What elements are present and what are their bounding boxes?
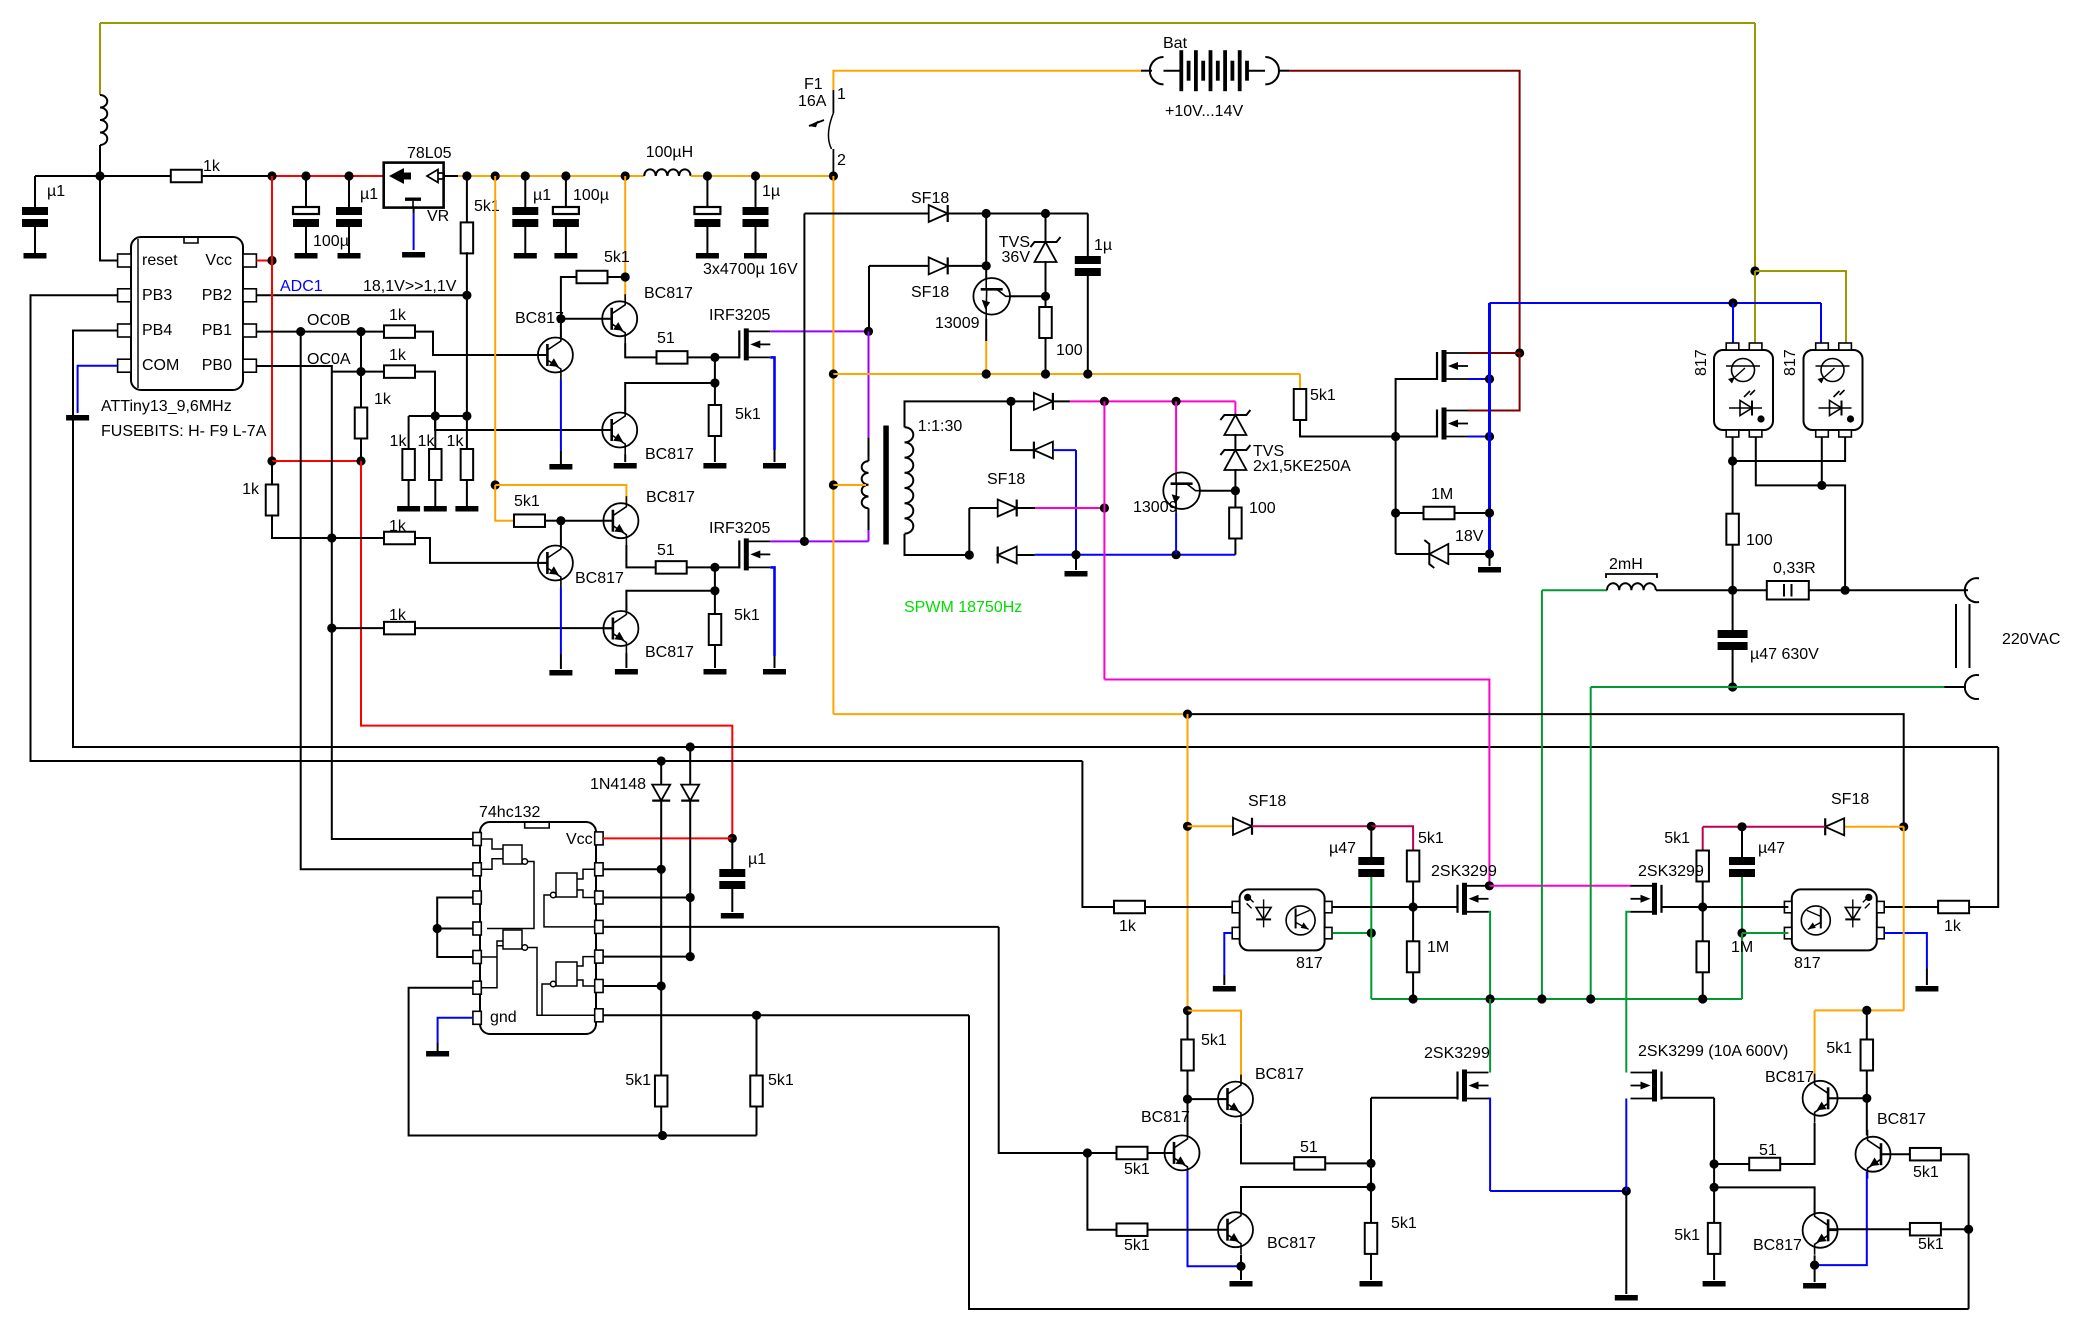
svg-text:Vcc: Vcc bbox=[205, 252, 232, 269]
res 5k1 gate feed bbox=[1294, 389, 1307, 420]
svg-text:COM: COM bbox=[142, 357, 179, 374]
wire VR gnd lead bbox=[413, 208, 415, 213]
svg-text:36V: 36V bbox=[1002, 249, 1031, 266]
wire Q19 emitter bbox=[1814, 1255, 1816, 1265]
svg-text:IRF3205: IRF3205 bbox=[709, 307, 770, 324]
diode D4 SF18 bbox=[1034, 393, 1053, 410]
svg-text:SF18: SF18 bbox=[911, 190, 949, 207]
svg-text:0,33R: 0,33R bbox=[1773, 560, 1816, 577]
wire orange to Q5a collector bbox=[495, 485, 626, 505]
gate G4 NAND bbox=[542, 957, 594, 1016]
svg-text:5k1: 5k1 bbox=[1391, 1215, 1417, 1232]
svg-text:BC817: BC817 bbox=[1255, 1066, 1304, 1083]
junction M2 source bbox=[1485, 432, 1494, 441]
tvs KE250A 2 bbox=[1220, 445, 1250, 470]
wire gate to 5k1 A2 bbox=[714, 357, 716, 383]
wire to 5k1 Q13 bbox=[1087, 1152, 1116, 1154]
resistor R 5k1 gate feed bbox=[1299, 374, 1301, 389]
svg-text:817: 817 bbox=[1296, 955, 1323, 972]
capacitor C10 µ47 bbox=[1370, 826, 1372, 857]
optocoupler U7 817 bbox=[1784, 889, 1884, 950]
svg-text:5k1: 5k1 bbox=[604, 249, 630, 266]
res 1M bbox=[1424, 507, 1455, 520]
junction gate bus R bbox=[1698, 902, 1707, 911]
junction gate bus L bbox=[1409, 902, 1418, 911]
wire D13 down bbox=[689, 801, 691, 957]
wire Q8 collector bbox=[1010, 295, 1046, 297]
ground C3 bbox=[338, 253, 361, 259]
tvs 36V bbox=[1031, 237, 1061, 262]
wire Q6 emitter bbox=[625, 653, 627, 668]
junction rail bbox=[521, 171, 530, 180]
wire divider top bbox=[409, 415, 467, 417]
transistor Q12 BC817 bbox=[1218, 1075, 1253, 1124]
junction emitters R bbox=[1810, 1261, 1819, 1270]
junction F1 out bbox=[829, 171, 838, 180]
svg-text:817: 817 bbox=[1693, 349, 1710, 376]
svg-text:18,1V>>1,1V: 18,1V>>1,1V bbox=[363, 278, 457, 295]
gate G3 NAND bbox=[544, 869, 594, 927]
wire Vcc 1k chain bbox=[271, 461, 273, 484]
wire Q19 collector link bbox=[1714, 1187, 1815, 1212]
junction bbox=[1041, 209, 1050, 218]
wire 1k pullup to red bbox=[360, 438, 362, 461]
wire reset to rail bbox=[100, 176, 118, 261]
ground Q6 bbox=[615, 669, 638, 675]
junction rail bbox=[95, 171, 104, 180]
wire base feed Q8 bbox=[985, 214, 987, 279]
junction bbox=[1100, 397, 1109, 406]
svg-text:817: 817 bbox=[1782, 349, 1799, 376]
capacitor C8 1µ bbox=[1087, 214, 1089, 257]
wire 5k1A to base node bbox=[561, 277, 577, 319]
svg-text:1M: 1M bbox=[1431, 486, 1453, 503]
ground divider 2 bbox=[424, 506, 447, 512]
svg-text:51: 51 bbox=[1759, 1142, 1777, 1159]
junction output hot bbox=[1841, 586, 1850, 595]
wire Q13 emitter blue bbox=[1188, 1170, 1242, 1266]
wire pin9 link bbox=[603, 868, 661, 870]
junction red bbox=[267, 456, 276, 465]
wire to Q13 collector bbox=[1187, 1099, 1189, 1135]
resistor R 51 B bbox=[656, 561, 687, 574]
wire gate lead B bbox=[715, 566, 739, 568]
svg-text:SF18: SF18 bbox=[911, 284, 949, 301]
wire 100 to orange bbox=[1045, 338, 1047, 374]
wire pin10 link bbox=[603, 897, 690, 899]
gate G2 NAND bbox=[481, 930, 589, 1015]
wire blue node vertical bbox=[1488, 303, 1491, 554]
junction bbox=[982, 261, 991, 270]
diode D12 1N4148 bbox=[652, 785, 670, 801]
wire 1k divider gnd lead 3 bbox=[466, 480, 468, 506]
junction green bus bbox=[1486, 994, 1495, 1003]
svg-text:100: 100 bbox=[1249, 500, 1276, 517]
wire lower rail black to right bbox=[1188, 714, 1904, 827]
ground C7 bbox=[744, 253, 767, 259]
junction Q2 base node bbox=[556, 314, 565, 323]
ground C5 bbox=[554, 253, 577, 259]
wire olive to opto U4 pin bbox=[1754, 271, 1756, 343]
wire magenta vertical bbox=[1103, 401, 1105, 679]
ground rectifier bbox=[1065, 571, 1088, 577]
capacitor C1 µ1 bbox=[34, 176, 36, 207]
transistor Q3 BC817 bbox=[538, 331, 573, 380]
svg-text:1:1:30: 1:1:30 bbox=[918, 418, 963, 435]
wire M upper L source green bbox=[1489, 912, 1491, 999]
svg-text:ATTiny13_9,6MHz: ATTiny13_9,6MHz bbox=[101, 398, 232, 415]
wire OC0B to 74hc pin2 bbox=[301, 332, 480, 870]
wire 1M right bbox=[1455, 512, 1490, 514]
svg-text:BC817: BC817 bbox=[646, 489, 695, 506]
junction gate pair bbox=[1391, 432, 1400, 441]
wire opto emitter bus bbox=[1732, 437, 1734, 461]
wire blue to optos bbox=[1490, 302, 1822, 304]
junction Q13 collector link bbox=[1366, 1182, 1375, 1191]
optocoupler U5 817 bbox=[1804, 343, 1863, 437]
svg-text:OC0B: OC0B bbox=[307, 312, 351, 329]
cap C11 plates bbox=[1729, 857, 1755, 877]
junction red 2 bbox=[356, 456, 365, 465]
wire primary bottom purple bbox=[868, 530, 870, 541]
wire pin8 long bbox=[603, 926, 999, 928]
wire to Q5 collector bbox=[560, 521, 562, 546]
junction Q5a base node bbox=[556, 516, 565, 525]
ground blue node bbox=[1478, 567, 1501, 573]
wire shunt left bbox=[1735, 589, 1767, 591]
svg-text:PB1: PB1 bbox=[202, 322, 232, 339]
junction bbox=[686, 893, 695, 902]
junction orange B bbox=[491, 480, 500, 489]
wire shunt right bbox=[1809, 589, 1845, 591]
cap C7 plates bbox=[743, 207, 769, 227]
wire opto R emitter green bbox=[1742, 932, 1788, 934]
junction orange R bbox=[1862, 1006, 1871, 1015]
wire to D4 bbox=[1011, 400, 1034, 402]
wire gate node down bbox=[1395, 437, 1397, 555]
junction orange L driver bbox=[1183, 1006, 1192, 1015]
svg-text:2SK3299: 2SK3299 bbox=[1431, 863, 1497, 880]
res 100 output bbox=[1726, 514, 1739, 545]
junction 1M right bbox=[1485, 508, 1494, 517]
junction 5k1 fb bbox=[752, 1011, 761, 1020]
svg-text:BC817: BC817 bbox=[1141, 1109, 1190, 1126]
res 5k1 fb1 bbox=[655, 1076, 668, 1107]
wire gnd pin blue bbox=[438, 1018, 473, 1043]
wire 5k1A2 gnd bbox=[714, 436, 716, 462]
wire 74hc pin3-4-5 tie bbox=[437, 898, 473, 958]
secondary coil bbox=[905, 427, 914, 533]
svg-text:1k: 1k bbox=[418, 433, 436, 450]
svg-text:SF18: SF18 bbox=[1248, 793, 1286, 810]
junction Q6 collector bbox=[710, 586, 719, 595]
junction rail bbox=[621, 171, 630, 180]
svg-text:µ47: µ47 bbox=[1758, 840, 1785, 857]
junction blue source bbox=[1622, 1186, 1631, 1195]
svg-text:51: 51 bbox=[1300, 1139, 1318, 1156]
wire R2 to divider bbox=[466, 252, 468, 416]
svg-text:5k1: 5k1 bbox=[1664, 830, 1690, 847]
junction bbox=[982, 369, 991, 378]
cap C12 plates bbox=[719, 869, 745, 889]
ground VR bbox=[402, 252, 425, 258]
wire input L to Q14 bbox=[1087, 1153, 1116, 1230]
wire dark red to M2 drain bbox=[1468, 353, 1520, 411]
wire Vcc red bbox=[256, 260, 272, 262]
wire 5k1 to gates bbox=[1300, 420, 1396, 437]
wire blue bus gnd bbox=[1625, 1191, 1627, 1294]
res 1k OC0B bbox=[384, 325, 415, 338]
wire M2 source blue bbox=[1468, 436, 1490, 438]
svg-text:13009: 13009 bbox=[935, 315, 980, 332]
junction bbox=[657, 981, 666, 990]
junction right orange bbox=[1899, 822, 1908, 831]
wire 5k1B2 gnd bbox=[714, 645, 716, 668]
resistor R 5k1 Q19 base bbox=[1910, 1223, 1941, 1236]
resistor R 51 L bbox=[1294, 1157, 1325, 1170]
wire blue gnd lead bbox=[1489, 554, 1491, 566]
resistor R 5k1 A2 bbox=[709, 405, 722, 436]
wire 5k1 to input R bbox=[1941, 1153, 1969, 1155]
capacitor C4 µ1 bbox=[524, 176, 526, 207]
svg-text:+10V...14V: +10V...14V bbox=[1165, 103, 1243, 120]
wire green neutral drop bbox=[1590, 687, 1592, 999]
svg-text:Vcc: Vcc bbox=[566, 831, 593, 848]
cap C9 plates bbox=[1718, 630, 1748, 650]
junction pins tie bbox=[433, 924, 442, 933]
wire orange center tap bbox=[833, 484, 861, 486]
wire 5k1A right bbox=[608, 276, 626, 278]
svg-text:1k: 1k bbox=[1119, 918, 1137, 935]
svg-text:5k1: 5k1 bbox=[625, 1072, 651, 1089]
wire crimson R bbox=[1703, 826, 1826, 828]
wire Q6a emitter bbox=[624, 455, 626, 463]
wire gate node L vertical bbox=[1370, 1098, 1372, 1223]
svg-text:5k1: 5k1 bbox=[1674, 1227, 1700, 1244]
wire green bridge mid to 2mH bbox=[1542, 589, 1607, 591]
wire PB4 bus1 bbox=[73, 331, 1998, 748]
mosfet 2SK3299 upper L bbox=[1458, 883, 1489, 915]
capacitor C11 µ47 bbox=[1741, 827, 1743, 857]
svg-text:5k1: 5k1 bbox=[1913, 1164, 1939, 1181]
svg-text:µ1: µ1 bbox=[748, 851, 766, 868]
svg-text:BC817: BC817 bbox=[1765, 1069, 1814, 1086]
wire TVS link bbox=[1234, 434, 1236, 449]
svg-text:5k1: 5k1 bbox=[1310, 387, 1336, 404]
wire 51 to gate bbox=[688, 356, 715, 358]
transistor Q6a BC817 bbox=[602, 406, 637, 455]
wire blue opto U5 bbox=[1820, 303, 1822, 343]
resistor R 100 clamp bbox=[1045, 296, 1047, 307]
wire pin4 link bbox=[437, 928, 473, 930]
wire green neutral right bbox=[1733, 686, 1945, 688]
wire SF18 L feed bbox=[1188, 825, 1234, 827]
junction D clamp bbox=[800, 537, 809, 546]
resistor R 5k1 Q14 base bbox=[1117, 1223, 1148, 1236]
svg-text:74hc132: 74hc132 bbox=[479, 804, 540, 821]
wire D1 cathode row bbox=[948, 213, 1088, 215]
wire to Q14 base bbox=[1148, 1229, 1228, 1231]
wire D4 out bbox=[1053, 400, 1070, 402]
wire orange R horizontal bbox=[1815, 1009, 1904, 1011]
svg-text:220VAC: 220VAC bbox=[2002, 631, 2060, 648]
wire input L from 74hc bbox=[999, 927, 1088, 1153]
wire dark red to M1 drain bbox=[1468, 352, 1520, 354]
svg-text:1k: 1k bbox=[389, 347, 407, 364]
wire orange clamp rail bbox=[833, 373, 1300, 375]
wire L1 to rail bbox=[99, 145, 101, 176]
wire 1k divider lead 3 bbox=[466, 416, 468, 449]
resistor R 1k divider 2 bbox=[429, 449, 442, 480]
transistor Q13 BC817 bbox=[1165, 1128, 1200, 1177]
cap C8 plates bbox=[1075, 256, 1101, 276]
wire gate lead A bbox=[715, 356, 739, 358]
wire 100 to output bbox=[1732, 544, 1734, 590]
wire to output terminal bbox=[1845, 589, 1966, 591]
transformer T1 primary bbox=[868, 438, 870, 462]
ground opto R bbox=[1915, 986, 1938, 992]
junction magenta drain bbox=[1485, 881, 1494, 890]
resistor body R1 bbox=[171, 170, 202, 183]
wire D5 row bbox=[1011, 401, 1034, 450]
wire blue rectifier bus bbox=[1035, 554, 1236, 556]
junction secondary bottom bbox=[965, 550, 974, 559]
wire orange R driver bbox=[1903, 827, 1905, 1011]
svg-text:100µ: 100µ bbox=[313, 233, 349, 250]
svg-text:5k1: 5k1 bbox=[1124, 1237, 1150, 1254]
wire 78L05 output bbox=[444, 175, 458, 177]
svg-text:OC0A: OC0A bbox=[307, 351, 351, 368]
ground pd L bbox=[1360, 1281, 1383, 1287]
wire 100B to blue bbox=[1234, 539, 1236, 555]
resistor R 1k divider 3 bbox=[461, 449, 474, 480]
resistor R 0,33R shunt bbox=[1767, 581, 1809, 600]
svg-text:100: 100 bbox=[1056, 342, 1083, 359]
junction bbox=[1172, 397, 1181, 406]
wire Q2 emitter to 51 bbox=[625, 343, 656, 357]
transistor Q14 BC817 bbox=[1218, 1205, 1253, 1254]
wire green drop R bbox=[1741, 933, 1743, 999]
capacitor C5 100µ bbox=[565, 176, 567, 207]
svg-text:SPWM 18750Hz: SPWM 18750Hz bbox=[904, 599, 1022, 616]
junction M1 source bbox=[1485, 374, 1494, 383]
resistor R 1k to Q6 base bbox=[384, 622, 415, 635]
diode D11 SF18 bbox=[1825, 818, 1844, 835]
cap C10 plates bbox=[1358, 857, 1384, 877]
diode D5 SF18 bbox=[1034, 442, 1053, 459]
junction rail bbox=[703, 171, 712, 180]
resistor R 1M bbox=[1396, 512, 1424, 514]
svg-text:PB2: PB2 bbox=[202, 287, 232, 304]
wire orange trunk bbox=[832, 176, 834, 714]
junction 74hc Vcc bbox=[728, 834, 737, 843]
wire 5k1 to Q17 base bbox=[1866, 1070, 1868, 1098]
ground Q6a bbox=[614, 463, 637, 469]
wire to 5k1 B2 bbox=[714, 591, 716, 615]
diode D1 SF18 bbox=[929, 205, 948, 222]
junction bbox=[657, 865, 666, 874]
wire emitters gnd L bbox=[1240, 1266, 1242, 1280]
junction Q19 collector link bbox=[1710, 1183, 1719, 1192]
wire Q17 base lead bbox=[1828, 1097, 1867, 1099]
wire battery left lead bbox=[1141, 70, 1152, 72]
svg-text:2x1,5KE250A: 2x1,5KE250A bbox=[1253, 458, 1351, 475]
junction opto collectors bbox=[1817, 481, 1826, 490]
transistor Q8 13009 bbox=[973, 278, 1016, 319]
wire to 5k1 A2 bbox=[714, 383, 716, 407]
wire to Q13 base bbox=[1148, 1152, 1175, 1154]
wire M1 source blue bbox=[1468, 378, 1490, 380]
diode D10 SF18 bbox=[1233, 818, 1252, 835]
wire green neutral bbox=[1591, 686, 1733, 688]
wire green bus bbox=[1371, 998, 1742, 1000]
wire 1k divider lead 1 bbox=[408, 416, 410, 449]
transistor Q5a BC817 bbox=[603, 496, 638, 545]
junction rail bbox=[344, 171, 353, 180]
wire to Q6a collector bbox=[625, 383, 715, 413]
wire IRF3205 B drain purple bbox=[770, 540, 868, 542]
wire olive to opto U5 pin bbox=[1755, 271, 1846, 343]
wire M lower R source blue bbox=[1625, 1099, 1627, 1192]
wire olive drop to inductor L1 bbox=[99, 23, 101, 95]
junction purple primary top bbox=[864, 327, 873, 336]
res 1k B2 bbox=[384, 532, 415, 545]
transistor Q19 BC817 bbox=[1803, 1206, 1838, 1255]
diode D6 SF18 bbox=[998, 500, 1017, 517]
wire pd R gnd bbox=[1713, 1254, 1715, 1280]
wire Vcc pin red bbox=[603, 837, 732, 839]
gate G1 NAND bbox=[481, 839, 534, 929]
wire 51L to gate node bbox=[1325, 1162, 1371, 1164]
resistor R 51 A bbox=[657, 351, 688, 364]
wire C8 bottom bbox=[1087, 276, 1089, 374]
junction rail bbox=[751, 171, 760, 180]
wire to output terminal 2 bbox=[1944, 686, 1966, 688]
svg-text:100µH: 100µH bbox=[646, 144, 693, 161]
TVS D3 36V bbox=[1045, 214, 1047, 242]
zener 18V bbox=[1424, 540, 1448, 568]
svg-text:µ47: µ47 bbox=[1329, 840, 1356, 857]
wire 13009 B base bbox=[1175, 401, 1177, 472]
cap C6 plates bbox=[694, 207, 720, 227]
junction OC0A tap2 bbox=[327, 624, 336, 633]
wire D2 anode drop bbox=[868, 266, 870, 332]
ground C4 bbox=[514, 253, 537, 259]
wire D5 blue bbox=[1053, 449, 1076, 451]
wire clamp D2 row bbox=[869, 265, 929, 267]
wire input R vertical bbox=[1968, 1154, 1970, 1309]
resistor R2 5k1 bbox=[466, 176, 468, 224]
svg-text:5k1: 5k1 bbox=[1826, 1040, 1852, 1057]
svg-text:78L05: 78L05 bbox=[407, 145, 452, 162]
svg-text:µ47 630V: µ47 630V bbox=[1750, 646, 1819, 663]
wire green to half bridge bbox=[1541, 590, 1543, 999]
wire D6 row bbox=[969, 507, 997, 509]
svg-text:5k1: 5k1 bbox=[1124, 1161, 1150, 1178]
ground Q3 bbox=[549, 464, 572, 470]
wire Q18 emitter blue bbox=[1815, 1172, 1867, 1265]
mosfet 2SK3299 lower L bbox=[1458, 1070, 1489, 1102]
wire 5k1R to gate bus bbox=[1702, 881, 1704, 907]
junction orange clamp feed bbox=[829, 369, 838, 378]
wire to Q6 collector bbox=[626, 591, 715, 611]
wire TVS to collector bbox=[1045, 261, 1047, 296]
wire PB3 bus2 bbox=[31, 295, 1083, 761]
primary coil bbox=[862, 461, 869, 508]
terminal output hot bbox=[1965, 578, 1979, 602]
svg-text:100: 100 bbox=[1746, 532, 1773, 549]
wire blue opto U4 bbox=[1732, 303, 1734, 343]
